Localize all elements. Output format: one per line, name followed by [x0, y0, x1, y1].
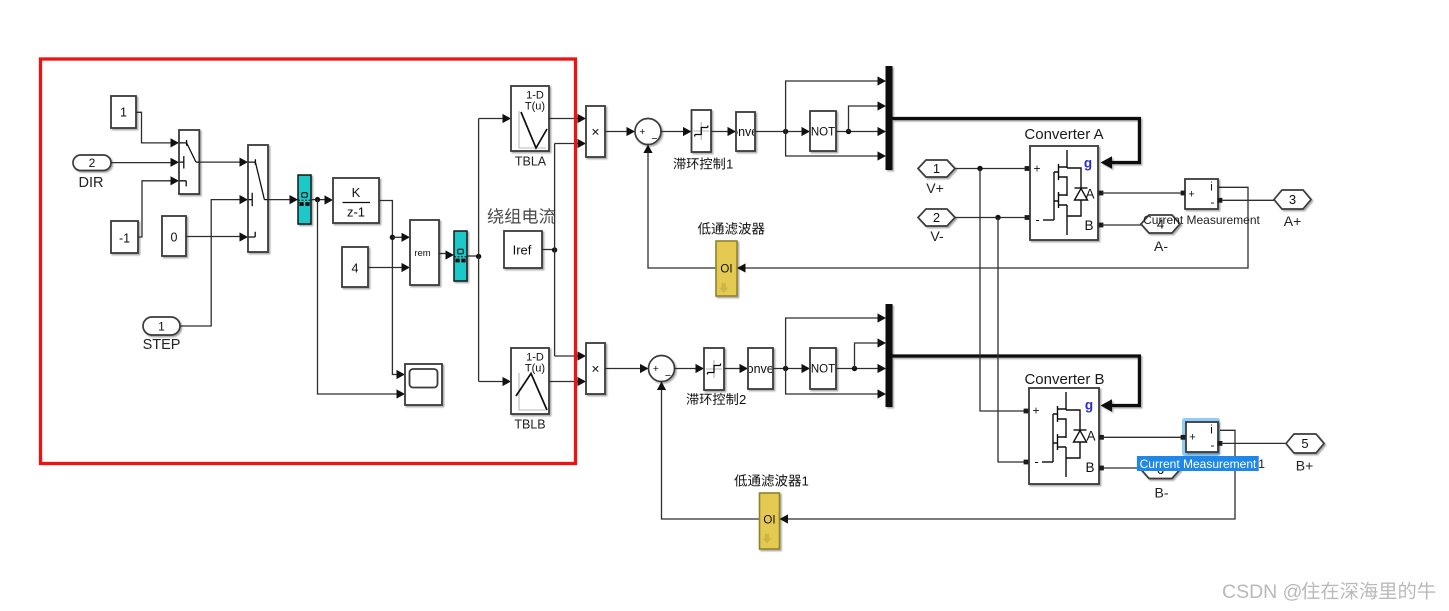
low pass filter block OI2 (yellow)	[760, 493, 780, 549]
lookup table TBLB	[511, 348, 549, 414]
port V- (2) hexagon	[918, 209, 955, 226]
sum block S2 (+-)	[649, 356, 675, 382]
svg-text:-: -	[1035, 212, 1039, 227]
svg-text:Converter B: Converter B	[1024, 371, 1104, 388]
svg-text:g: g	[1085, 398, 1093, 413]
svg-text:OI: OI	[720, 263, 732, 275]
wire V- rail down to Converter B minus	[998, 218, 1025, 463]
logical NOT block N1	[810, 111, 836, 151]
wire S2 to relay R2	[675, 368, 697, 370]
svg-text:B+: B+	[1296, 458, 1314, 474]
wire Converter A out A to Current Measurement plus	[1103, 192, 1180, 194]
svg-text:CSDN @: CSDN @	[1222, 581, 1302, 603]
svg-text:+: +	[1189, 432, 1195, 444]
mux M1 (black bar)	[886, 66, 893, 170]
product block P2 (multiply)	[586, 343, 605, 394]
constant block value 1	[111, 96, 136, 128]
wire C2 output junction	[773, 368, 802, 370]
wire C2 junction down to mux M2 in4	[786, 369, 878, 395]
converter B subsystem block (MOSFET half-bridge)	[1029, 388, 1099, 484]
wire DIR to switch1 in2	[111, 162, 171, 164]
svg-text:i: i	[1210, 182, 1213, 194]
converter A port squares	[1025, 166, 1030, 171]
wire junction to rem in1	[392, 236, 402, 238]
wire P1 to sum S1	[605, 131, 627, 133]
svg-text:1: 1	[158, 319, 165, 333]
svg-text:OI: OI	[763, 514, 775, 526]
svg-text:NOT: NOT	[811, 126, 835, 138]
svg-text:B: B	[1084, 218, 1093, 233]
svg-text:STEP: STEP	[143, 337, 181, 353]
wire switch2 to rate transition RT1	[268, 199, 290, 201]
svg-text:T(u): T(u)	[525, 363, 545, 375]
switch U1 (manual switch)	[179, 130, 199, 194]
svg-text:Iref: Iref	[513, 243, 532, 258]
svg-text:TBLB: TBLB	[514, 418, 545, 432]
svg-text:-1: -1	[119, 232, 130, 246]
wire constant1 to switch1 in1	[136, 112, 171, 143]
wire STEP to switch2 in2	[180, 200, 240, 326]
converter A subsystem block (MOSFET half-bridge)	[1030, 146, 1098, 240]
wire current measurement CM2 i to OI2 input	[788, 430, 1235, 519]
wire rail up to product P1 in2	[555, 143, 578, 145]
svg-text:-: -	[1034, 454, 1038, 469]
svg-text:−: −	[651, 133, 657, 145]
svg-text:T(u): T(u)	[525, 101, 545, 113]
port B+ (5) hexagon	[1286, 434, 1324, 453]
port B- (6) hexagon	[1141, 461, 1180, 479]
wire constant-1 to switch1 in3	[138, 181, 171, 237]
svg-text:1: 1	[933, 161, 940, 176]
mux M2 (black bar)	[886, 304, 893, 407]
selection halo around Current Measurement1	[1182, 418, 1220, 456]
svg-text:1: 1	[726, 157, 733, 172]
svg-text:A: A	[1085, 187, 1094, 202]
constant block value 4	[342, 247, 368, 287]
wire Converter A out B to port A- hexagon	[1103, 224, 1141, 226]
thick gate wire M2 to Converter B g port	[893, 356, 1140, 412]
svg-text:V+: V+	[926, 180, 944, 196]
wire C1 junction up to mux M1 in1	[786, 81, 878, 132]
thick gate wire M1 to Converter A g port	[893, 119, 1140, 169]
current measurement block CM1	[1185, 179, 1218, 209]
wire constant4 to rem in2	[368, 267, 402, 269]
wire rail to lookup table TBLB	[479, 381, 503, 383]
wire rail down to product P2 in1	[555, 355, 578, 357]
relay block R2 (hysteresis)	[704, 348, 724, 390]
wire RT2 output junction and vertical rail	[467, 255, 479, 257]
product block P1 (multiply)	[586, 106, 605, 157]
svg-text:i: i	[1210, 425, 1213, 437]
svg-text:+: +	[1188, 189, 1194, 201]
wire constant0 to switch2 in3	[186, 236, 240, 238]
svg-text:K: K	[352, 185, 361, 200]
svg-text:+: +	[639, 126, 645, 138]
svg-text:1: 1	[802, 474, 809, 489]
wire RT1 to K/z-1, junction node	[311, 199, 325, 201]
inport DIR (2)	[73, 155, 111, 171]
label 滞环控制2	[687, 393, 699, 405]
svg-text:+: +	[1032, 404, 1039, 418]
svg-text:1: 1	[120, 106, 127, 120]
wire switch1 to switch2 in1	[199, 161, 240, 163]
svg-text:+: +	[653, 363, 659, 375]
wire Converter B out B to port B- hexagon	[1104, 467, 1141, 469]
wire N2 junction up to mux M2 in2	[855, 343, 879, 369]
svg-text:0: 0	[171, 231, 178, 245]
svg-text:NOT: NOT	[811, 364, 835, 376]
scope block	[405, 364, 442, 405]
svg-text:rem: rem	[414, 248, 430, 259]
current measurement block CM2 (selected)	[1186, 422, 1218, 452]
wire RT1 junction down to scope in2	[318, 200, 398, 394]
svg-text:B: B	[1085, 460, 1094, 475]
reference current block Iref	[504, 231, 542, 268]
wire S1 to relay R1	[661, 131, 684, 133]
sum block S1 (+-)	[635, 119, 661, 145]
svg-text:1: 1	[1258, 457, 1265, 471]
port A- (4) hexagon	[1141, 215, 1180, 233]
svg-text:TBLA: TBLA	[515, 155, 547, 169]
svg-text:×: ×	[591, 361, 599, 377]
svg-text:5: 5	[1301, 436, 1308, 451]
wire K/z-1 to junction to rem and scope in1	[379, 201, 397, 375]
label 滞环控制1	[674, 158, 686, 170]
logical NOT block N2	[810, 348, 836, 389]
svg-text:2: 2	[933, 210, 940, 225]
port V+ (1) hexagon	[918, 160, 955, 177]
svg-text:×: ×	[591, 124, 599, 140]
relay block R1 (hysteresis)	[692, 110, 712, 152]
CM2 port squares	[1181, 435, 1186, 440]
svg-text:B-: B-	[1155, 485, 1169, 501]
svg-text:A: A	[1086, 429, 1095, 444]
wire C1 output junction	[755, 131, 802, 133]
wire N1 junction up to mux M1 in2	[849, 106, 879, 132]
svg-text:-: -	[1211, 195, 1215, 209]
label 低通滤波器	[698, 222, 711, 234]
wire current measurement CM1 i to OI1 input	[746, 187, 1249, 268]
svg-text:4: 4	[352, 262, 359, 276]
wire rem to rate transition RT2	[439, 253, 446, 255]
wire N2 output junction to mux M2 in3	[836, 368, 878, 370]
annotation 绕组电流 (winding current)	[488, 208, 504, 224]
svg-text:g: g	[1084, 156, 1092, 171]
wire CM2 minus to port B+ hexagon	[1222, 442, 1286, 444]
svg-text:3: 3	[1289, 192, 1296, 207]
wire R2 to convert C2	[724, 368, 740, 370]
wire P2 to sum S2	[605, 368, 641, 370]
constant block value -1	[111, 221, 138, 253]
svg-text:V-: V-	[930, 228, 944, 244]
wire Converter B out A to Current Measurement1 plus	[1104, 436, 1181, 438]
wire V+ to Converter A plus, junction	[955, 168, 1025, 170]
inport STEP (1)	[143, 317, 180, 335]
wire V+ rail down to Converter B plus	[980, 169, 1025, 412]
constant block value 0	[162, 216, 186, 256]
wire CM1 minus to port A+ hexagon	[1222, 199, 1274, 201]
svg-text:Current Measurement: Current Measurement	[1143, 213, 1260, 227]
wire TBLA to product P1	[549, 118, 578, 120]
low pass filter block OI1 (yellow)	[716, 241, 737, 296]
svg-text:+: +	[1033, 162, 1040, 176]
svg-text:2: 2	[89, 156, 96, 170]
math function block rem	[410, 220, 439, 285]
wire N1 output junction to mux M1 in3	[836, 131, 878, 133]
CM1 port squares	[1181, 191, 1186, 196]
red highlight rectangle	[41, 59, 576, 464]
svg-text:Current Measurement: Current Measurement	[1140, 457, 1257, 471]
wire C2 junction up to mux M2 in1	[786, 318, 878, 369]
svg-text:A+: A+	[1284, 213, 1302, 229]
wire Iref output junction rail	[542, 249, 555, 251]
label 低通滤波器1	[734, 474, 747, 486]
wire rail to lookup table TBLA	[479, 118, 503, 120]
port A+ (3) hexagon	[1274, 190, 1311, 209]
wire C1 junction down to mux M1 in4	[786, 132, 878, 157]
svg-text:DIR: DIR	[79, 175, 104, 191]
rate transition RT1 (teal)	[298, 175, 311, 224]
svg-text:-: -	[1211, 438, 1215, 452]
rate transition RT2 (teal)	[454, 231, 467, 281]
svg-text:A-: A-	[1154, 238, 1168, 254]
wire feedback OI1 to S1 bottom	[648, 153, 716, 269]
switch U2 (manual switch)	[248, 145, 268, 252]
svg-text:−: −	[665, 370, 671, 382]
wire TBLB to product P2	[549, 381, 578, 383]
wire R1 to convert C1	[711, 131, 728, 133]
selected name label Current Measurement1	[1137, 456, 1259, 471]
lookup table TBLA	[511, 86, 549, 151]
discrete integrator block K/z-1	[333, 178, 379, 223]
svg-text:Converter A: Converter A	[1024, 126, 1103, 143]
svg-text:2: 2	[739, 392, 746, 407]
svg-text:z-1: z-1	[347, 205, 365, 220]
wire V- to Converter A minus, junction	[955, 217, 1025, 219]
converter B port squares	[1024, 409, 1029, 414]
wire feedback OI2 to S2 bottom	[662, 390, 760, 520]
